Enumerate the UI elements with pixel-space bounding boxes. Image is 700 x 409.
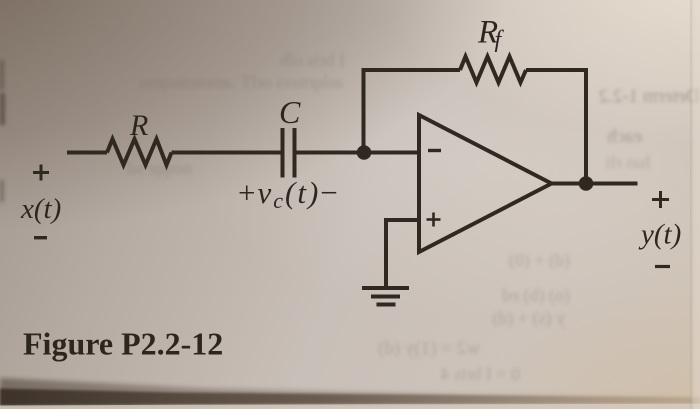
polarity minus at output y(t) <box>655 265 670 268</box>
wire <box>362 68 461 72</box>
op-amp plus input sign <box>427 213 441 227</box>
right page edge strip <box>690 0 700 409</box>
wire <box>297 151 420 155</box>
polarity plus at output y(t) <box>652 191 669 208</box>
svg-text:y(t): y(t) <box>638 219 681 251</box>
ground <box>362 288 409 305</box>
wire <box>67 151 107 155</box>
op-amp U1 <box>419 115 552 252</box>
wire <box>172 151 281 155</box>
capacitor C <box>283 128 295 178</box>
wire <box>526 70 586 182</box>
resistor Rf <box>460 57 526 83</box>
svg-text:R: R <box>129 109 148 142</box>
polarity plus at input x(t) <box>33 165 49 181</box>
wire <box>386 220 419 287</box>
svg-text:+vc(t)−: +vc(t)− <box>238 175 340 213</box>
left edge dark marks <box>0 60 4 90</box>
svg-text:x(t): x(t) <box>20 193 61 225</box>
svg-text:f: f <box>495 27 505 53</box>
bleed-through text from reverse page <box>245 50 345 71</box>
wire <box>552 182 638 186</box>
svg-text:R: R <box>477 15 498 51</box>
op-amp minus input sign <box>428 149 441 152</box>
svg-text:C: C <box>279 94 301 130</box>
polarity minus at input x(t) <box>34 236 47 239</box>
wire <box>362 70 366 153</box>
svg-text:Figure P2.2-12: Figure P2.2-12 <box>23 326 223 362</box>
node A <box>357 145 372 160</box>
resistor R <box>107 139 172 165</box>
node B <box>579 176 594 191</box>
